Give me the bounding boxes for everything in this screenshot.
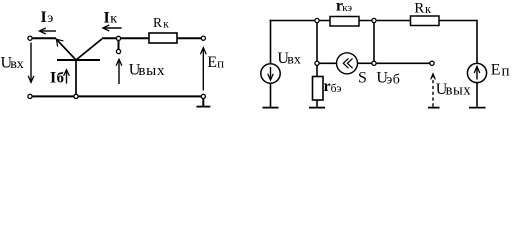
vertical wire x=374 xyxy=(373,23,375,62)
node top-left of r_кэ xyxy=(315,18,319,22)
label Е_п xyxy=(207,54,224,71)
right rail xyxy=(476,20,478,64)
wire node to output terminal xyxy=(118,41,120,49)
bottom wire xyxy=(33,95,201,97)
dashed voltage arrow U_вых (right circuit) xyxy=(431,74,436,107)
svg-text:S: S xyxy=(358,70,367,87)
source U_вх (circle, down arrow) xyxy=(261,64,280,83)
svg-text:I: I xyxy=(41,9,47,26)
svg-text:вх: вх xyxy=(287,53,301,68)
top wire segment 1 xyxy=(270,20,331,22)
node top-right of r_кэ xyxy=(372,18,376,22)
label U_вых (right circuit) xyxy=(436,81,472,98)
current arrow I_б xyxy=(64,70,70,84)
transistor Q1 emitter lead xyxy=(56,39,76,60)
svg-text:Е: Е xyxy=(207,54,217,71)
wire to output terminal xyxy=(376,62,430,64)
source Е_п (circle, up arrow) xyxy=(467,63,486,82)
svg-text:кэ: кэ xyxy=(342,2,352,14)
stub below r_бэ xyxy=(316,100,318,107)
stub below U_вх source xyxy=(270,83,272,107)
current arrow I_к xyxy=(103,25,122,31)
label I_б xyxy=(50,69,64,86)
transistor Q1 emitter arrowhead xyxy=(57,39,64,46)
svg-text:вых: вых xyxy=(446,82,472,98)
svg-text:R: R xyxy=(153,15,162,30)
node mid-right xyxy=(372,61,376,65)
wire resistor to right terminal xyxy=(177,37,201,39)
wire node to dependent source xyxy=(319,62,336,64)
resistor r_кэ xyxy=(330,17,359,27)
top wire segment 2 xyxy=(359,20,411,22)
terminal top-right xyxy=(201,36,205,40)
transistor Q1 base lead xyxy=(75,60,77,94)
svg-text:эб: эб xyxy=(386,72,400,87)
svg-text:п: п xyxy=(502,63,510,79)
svg-text:вх: вх xyxy=(10,57,24,72)
resistor r_бэ xyxy=(313,77,324,101)
resistor r_бэ branch wire xyxy=(316,65,318,76)
terminal bottom-right xyxy=(201,94,205,98)
ground (left circuit) xyxy=(196,99,210,107)
dependent source S·U_эб (circle with «) xyxy=(337,53,358,74)
voltage arrow U_вх xyxy=(28,43,34,83)
svg-text:Е: Е xyxy=(491,62,501,79)
resistor R_к xyxy=(149,33,177,43)
wire collector to resistor xyxy=(102,37,149,39)
node base-bottom junction xyxy=(74,94,78,98)
label R_к (right) xyxy=(414,1,432,17)
voltage arrow Е_п xyxy=(200,48,206,91)
wire source to mid-right node xyxy=(358,62,372,64)
wire top-left horizontal xyxy=(33,37,56,39)
transistor Q1 collector lead xyxy=(76,39,102,60)
label I_э xyxy=(41,9,54,26)
label U_эб xyxy=(376,70,400,88)
label r_кэ xyxy=(336,0,352,15)
label U_вх (right circuit) xyxy=(277,50,301,67)
label U_вых xyxy=(129,62,165,79)
node (output tap) xyxy=(116,36,120,40)
ground bar (r_бэ branch) xyxy=(309,107,325,109)
output terminal (right circuit) xyxy=(430,61,434,65)
top wire segment 3 xyxy=(439,20,477,22)
vertical wire x=317 xyxy=(316,23,318,62)
current arrow I_э xyxy=(39,28,56,34)
label r_бэ xyxy=(324,78,342,95)
transistor Q1 base bar xyxy=(57,59,100,61)
ground bar (U_вх branch) xyxy=(263,107,279,109)
left rail xyxy=(270,20,272,64)
svg-text:б: б xyxy=(57,71,65,87)
terminal bottom-left xyxy=(28,94,32,98)
svg-text:к: к xyxy=(425,2,432,16)
svg-text:э: э xyxy=(47,11,53,26)
svg-text:бэ: бэ xyxy=(331,83,342,95)
svg-text:п: п xyxy=(217,55,224,70)
ground bar (Е_п branch) xyxy=(469,107,486,109)
terminal (output) xyxy=(116,49,120,53)
ground bar (U_вых branch) xyxy=(428,107,440,109)
stub below Е_п source xyxy=(476,83,478,107)
label Е_п (right circuit) xyxy=(491,62,510,80)
voltage arrow U_вых xyxy=(116,59,122,84)
svg-text:I: I xyxy=(50,69,56,86)
terminal top-left xyxy=(28,36,32,40)
label I_к xyxy=(104,9,118,26)
label R_к xyxy=(153,15,169,30)
svg-text:к: к xyxy=(110,11,117,26)
label S xyxy=(358,70,367,87)
svg-text:к: к xyxy=(163,18,169,30)
svg-text:вых: вых xyxy=(138,63,165,79)
label U_вх xyxy=(1,55,24,72)
svg-text:R: R xyxy=(414,1,424,17)
resistor R_к (right) xyxy=(411,16,440,26)
svg-text:r: r xyxy=(324,78,331,95)
node mid-left xyxy=(315,61,319,65)
svg-text:I: I xyxy=(104,9,110,26)
